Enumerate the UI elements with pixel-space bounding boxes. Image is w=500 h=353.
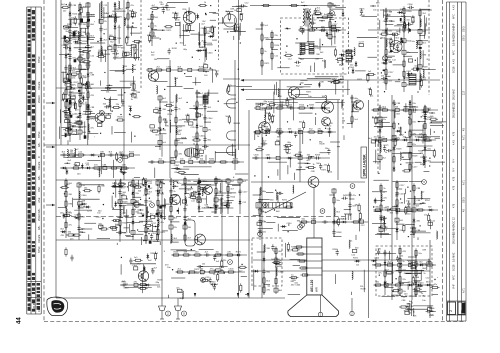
inductor L33 [380, 144, 381, 152]
circled reference 1 [79, 99, 84, 104]
diode D82 [146, 253, 149, 259]
dark component mark [198, 193, 201, 195]
wire [300, 79, 307, 81]
section divider (dashed) [140, 0, 142, 90]
wire [295, 94, 308, 96]
svg-text:C304: C304 [395, 139, 401, 141]
wire [222, 17, 224, 24]
resistor R64 [271, 41, 273, 50]
section divider (dashed) [342, 0, 344, 130]
wire [133, 233, 143, 235]
wire [407, 284, 409, 290]
dark component mark [148, 185, 150, 187]
circled reference 7 [258, 232, 263, 237]
svg-text:R114: R114 [339, 218, 345, 220]
node junction [143, 240, 144, 241]
right index table column line [449, 2, 451, 321]
wire [206, 196, 208, 204]
wire [101, 53, 110, 55]
chain wire [78, 182, 80, 240]
component box [103, 166, 107, 169]
wire [170, 157, 176, 159]
capacitor C54 [288, 106, 294, 109]
chain wire [384, 250, 386, 295]
diode D51 [418, 264, 424, 267]
inductor L41 [78, 32, 79, 40]
resistor R173 [131, 9, 133, 18]
wire [416, 286, 421, 288]
svg-text:R114: R114 [86, 65, 92, 67]
component box [167, 68, 171, 71]
svg-text:475: 475 [453, 203, 456, 208]
wire [406, 162, 414, 164]
node junction [67, 163, 68, 164]
chain wire [263, 245, 265, 295]
wire [235, 173, 248, 175]
parts index table column line 3 [35, 7, 37, 314]
component box [328, 3, 332, 7]
resistor R123 [68, 154, 77, 156]
node junction [97, 41, 98, 42]
node junction [132, 26, 133, 27]
wire [87, 117, 98, 119]
resistor R190 [228, 12, 230, 21]
resistor R124 [76, 154, 85, 156]
resistor R212 [109, 227, 118, 229]
resistor R223 [138, 287, 147, 289]
wire [138, 231, 157, 233]
wire [296, 169, 305, 171]
node junction [413, 224, 414, 225]
wire [426, 262, 428, 270]
wire [198, 32, 200, 41]
capacitor C2 [68, 29, 71, 35]
wire [64, 162, 70, 164]
capacitor C10 [78, 92, 81, 98]
center bus lower [238, 216, 240, 298]
chain wire [65, 40, 67, 120]
chain wire [415, 250, 417, 296]
section divider (dashed) [377, 0, 379, 175]
component box [378, 117, 382, 121]
component box [379, 228, 383, 232]
wire [101, 16, 114, 18]
svg-text:39,5 MHZ: 39,5 MHZ [453, 233, 456, 244]
IF transformer L5 [203, 95, 208, 104]
wire [114, 182, 116, 188]
wire [128, 182, 130, 192]
diode D10 [114, 35, 117, 41]
diode D40 [265, 157, 271, 160]
resistor R30 [175, 149, 177, 158]
node junction [113, 208, 114, 209]
node junction [79, 126, 80, 127]
inductor L29 [404, 16, 405, 24]
wire [373, 179, 388, 181]
capacitor C74 [130, 93, 136, 96]
rail 180 [56, 179, 248, 181]
svg-text:C217: C217 [203, 188, 209, 190]
wire [208, 90, 210, 97]
resistor R147 [416, 209, 425, 211]
component box [266, 130, 270, 133]
capacitor C17 [158, 127, 161, 133]
svg-text:C217: C217 [177, 126, 183, 128]
node junction [385, 55, 386, 56]
component box [328, 13, 332, 17]
wire [410, 233, 414, 235]
node junction [380, 191, 381, 192]
svg-text:44: 44 [17, 317, 23, 324]
diode D22 [385, 59, 388, 65]
svg-text:C217: C217 [399, 185, 405, 187]
node junction [261, 28, 262, 29]
diode D8 [114, 2, 117, 8]
component box [402, 39, 406, 43]
wire [409, 129, 424, 131]
node junction [413, 203, 414, 204]
wire [394, 25, 402, 27]
dark component mark [401, 40, 404, 42]
resistor R106 [415, 268, 417, 277]
wire [397, 24, 404, 26]
resistor R80 [409, 117, 411, 126]
svg-text:C217: C217 [119, 183, 125, 185]
wire [87, 133, 98, 135]
node junction [236, 102, 237, 103]
node junction [215, 50, 216, 51]
wire [167, 1, 188, 3]
wire [99, 3, 101, 23]
chain wire [424, 105, 426, 168]
diode D20 [239, 199, 242, 205]
node junction [116, 17, 117, 18]
wire [65, 27, 78, 29]
svg-text:R371: R371 [176, 131, 182, 133]
node junction [196, 96, 197, 97]
node junction [157, 184, 158, 185]
dark component mark [87, 106, 89, 109]
svg-text:R114: R114 [168, 114, 174, 116]
inductor L19 [120, 179, 121, 187]
node junction [423, 202, 424, 203]
diode D39 [327, 131, 333, 134]
resistor R213 [112, 219, 121, 221]
svg-text:R208: R208 [320, 144, 326, 146]
wire [137, 204, 146, 206]
resistor R175 [126, 36, 128, 45]
resistor R141 [402, 109, 411, 111]
component box [200, 270, 204, 273]
wire [75, 43, 87, 45]
node junction [204, 121, 205, 122]
svg-text:R371: R371 [160, 232, 166, 234]
dark component mark [70, 115, 73, 118]
component box [418, 65, 422, 69]
chain wire [349, 192, 351, 216]
wire [83, 98, 88, 100]
inductor L38 [334, 208, 335, 216]
circled reference 1 [383, 56, 388, 61]
wire [419, 8, 430, 10]
resistor R154 [351, 221, 360, 223]
top rail [250, 5, 340, 7]
wire [130, 28, 132, 36]
wire [74, 100, 76, 109]
component box [398, 263, 402, 266]
node junction [164, 89, 165, 90]
component box [396, 208, 400, 211]
resistor R142 [421, 109, 430, 111]
resistor R196 [192, 139, 201, 141]
chain wire [176, 271, 245, 273]
resistor R35 [204, 93, 206, 102]
inductor L35 [381, 194, 382, 202]
chain wire [69, 2, 71, 142]
chain wire [333, 188, 335, 236]
chain wire [127, 2, 129, 40]
node junction [396, 223, 397, 224]
resistor R219 [220, 203, 229, 205]
node junction [151, 37, 152, 38]
rail 260 [251, 259, 307, 261]
wire [59, 109, 61, 123]
wire [352, 101, 359, 103]
node junction [175, 186, 176, 187]
diode D18 [198, 205, 201, 211]
capacitor C13 [86, 116, 89, 122]
resistor R110 [307, 29, 316, 31]
svg-text:ABL: ABL [38, 225, 41, 230]
resistor R7 [79, 63, 81, 72]
node junction [238, 69, 239, 70]
bus wire right [368, 100, 370, 318]
svg-text:475: 475 [453, 131, 456, 136]
diode D30 [396, 227, 399, 233]
resistor R68 [385, 48, 387, 57]
wire [125, 235, 131, 237]
capacitor C32 [226, 193, 229, 199]
chain wire [215, 178, 217, 214]
wire [188, 7, 190, 22]
wire [155, 112, 160, 114]
wire [192, 82, 201, 84]
svg-text:R432: R432 [107, 106, 113, 108]
svg-text:R208: R208 [122, 223, 128, 225]
node junction [114, 51, 115, 52]
resistor R159 [82, 61, 91, 63]
svg-text:R371: R371 [282, 200, 288, 202]
component box [189, 122, 193, 125]
node junction [413, 234, 414, 235]
arrowhead rail 89 [241, 89, 245, 92]
node junction [351, 111, 352, 112]
svg-text:GB 3: GB 3 [463, 197, 466, 203]
wire [166, 203, 171, 205]
wire [256, 28, 262, 30]
component box [298, 130, 302, 133]
node junction [380, 211, 381, 212]
capacitor C78 [168, 48, 171, 54]
svg-text:SYNC: SYNC [38, 56, 41, 63]
transistor T12 [95, 113, 105, 123]
node junction [408, 236, 409, 237]
node junction [170, 241, 171, 242]
node junction [132, 197, 133, 198]
right index footer cells [448, 302, 456, 315]
wire [68, 18, 78, 20]
wire [183, 166, 211, 168]
capacitor C21 [203, 115, 206, 121]
wire [70, 125, 76, 127]
component box [130, 153, 134, 156]
transistor T4 [288, 87, 300, 99]
resistor R206 [62, 215, 71, 217]
bus wire [60, 0, 62, 145]
diode D67 [121, 171, 127, 174]
chain wire [184, 178, 186, 242]
wire [138, 41, 140, 60]
parts index table bottom border [27, 313, 41, 315]
capacitor C14 [99, 26, 102, 32]
node junction [198, 92, 199, 93]
node junction [132, 236, 133, 237]
wire [88, 39, 94, 41]
chain wire [300, 221, 368, 223]
component box [133, 267, 137, 270]
wire [313, 63, 315, 72]
component box [112, 227, 116, 230]
node junction [259, 194, 260, 195]
wire [232, 184, 240, 186]
wire [100, 81, 102, 86]
chain wire [374, 284, 434, 286]
svg-text:R-Y: R-Y [453, 158, 456, 163]
capacitor C70 [66, 127, 72, 130]
resistor R16 [87, 51, 89, 60]
resistor R97 [275, 256, 277, 265]
resistor R2 [69, 72, 71, 81]
resistor R116 [275, 131, 284, 133]
svg-text:R114: R114 [201, 199, 207, 201]
node junction [227, 200, 228, 201]
svg-text:C304: C304 [81, 195, 87, 197]
svg-text:C217: C217 [269, 122, 275, 124]
manufacturer logo shield [47, 297, 68, 316]
inductor L21 [146, 207, 147, 215]
node junction [162, 30, 163, 31]
svg-text:R208: R208 [157, 280, 163, 282]
resistor R158 [62, 110, 71, 112]
IF transformer L1 [300, 43, 305, 54]
resistor R118 [157, 161, 166, 163]
transistor T13 [138, 271, 148, 281]
chain wire [100, 2, 102, 62]
wire [76, 71, 80, 73]
svg-text:ABL: ABL [38, 175, 41, 180]
wire [88, 87, 92, 89]
resistor R21 [114, 43, 116, 52]
resistor R205 [60, 187, 69, 189]
wire [138, 203, 144, 205]
wire [407, 259, 415, 261]
node junction [415, 256, 416, 257]
svg-text:R371: R371 [65, 115, 71, 117]
wire [130, 132, 132, 143]
resistor R38 [65, 199, 67, 208]
svg-text:VIDEO: VIDEO [38, 213, 41, 221]
wire [93, 21, 96, 23]
wire [171, 221, 179, 223]
resistor R41 [119, 218, 121, 227]
signal arrow crossing border [46, 146, 55, 148]
svg-text:R114: R114 [98, 50, 104, 52]
wire [68, 65, 70, 82]
diode D7 [326, 31, 329, 37]
resistor R117 [307, 131, 316, 133]
component box [203, 65, 207, 68]
node junction [132, 22, 133, 23]
node junction [415, 60, 416, 61]
svg-text:C217: C217 [151, 223, 157, 225]
chain wire [159, 95, 161, 150]
chain wire [87, 2, 89, 138]
inductor L27 [352, 104, 353, 112]
wire [404, 106, 417, 108]
resistor R174 [132, 40, 141, 42]
capacitor C86 [164, 119, 167, 125]
wire [70, 35, 76, 37]
resistor R138 [226, 271, 235, 273]
resistor R224 [133, 259, 142, 261]
node junction [109, 38, 110, 39]
resistor R107 [415, 288, 417, 297]
node junction [385, 24, 386, 25]
resistor R8 [79, 71, 81, 80]
wire [87, 15, 95, 17]
component box [158, 140, 162, 144]
component box [169, 225, 173, 229]
component box [125, 52, 129, 55]
wire [404, 77, 409, 79]
resistor R157 [74, 122, 83, 124]
wire [414, 81, 420, 83]
component box [78, 202, 82, 205]
capacitor C55 [253, 156, 259, 159]
wire [318, 130, 324, 132]
svg-text:R208: R208 [332, 249, 338, 251]
wire [137, 209, 143, 211]
wire [301, 49, 314, 51]
component box [154, 109, 158, 112]
chain wire [261, 22, 263, 75]
capacitor C38 [378, 105, 381, 111]
resistor R49 [157, 227, 159, 236]
node junction [63, 26, 64, 27]
diode D74 [63, 213, 66, 219]
wire [154, 168, 156, 178]
rail 89 [241, 89, 350, 91]
node junction [170, 203, 171, 204]
capacitor C47 [332, 219, 335, 225]
node junction [431, 121, 432, 122]
wire [388, 251, 390, 260]
diode D42 [90, 154, 96, 157]
node junction [429, 158, 430, 159]
resistor R111 [329, 29, 338, 31]
capacitor C56 [306, 156, 312, 159]
resistor R19 [87, 91, 89, 100]
